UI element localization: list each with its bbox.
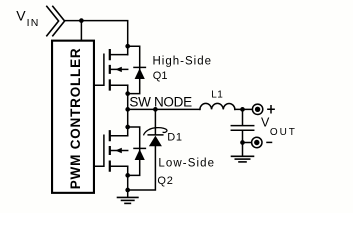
svg-text:PWM CONTROLLER: PWM CONTROLLER xyxy=(68,48,83,190)
svg-text:L1: L1 xyxy=(211,89,223,100)
svg-text:OUT: OUT xyxy=(270,127,297,138)
svg-text:D1: D1 xyxy=(167,132,183,144)
svg-text:V: V xyxy=(16,7,26,23)
svg-text:Low-Side: Low-Side xyxy=(158,158,215,170)
svg-text:SW NODE: SW NODE xyxy=(129,94,192,109)
svg-text:High-Side: High-Side xyxy=(153,55,213,67)
svg-text:Q2: Q2 xyxy=(157,175,173,187)
svg-text:IN: IN xyxy=(27,17,40,29)
svg-text:Q1: Q1 xyxy=(153,70,168,82)
svg-text:V: V xyxy=(261,115,270,129)
